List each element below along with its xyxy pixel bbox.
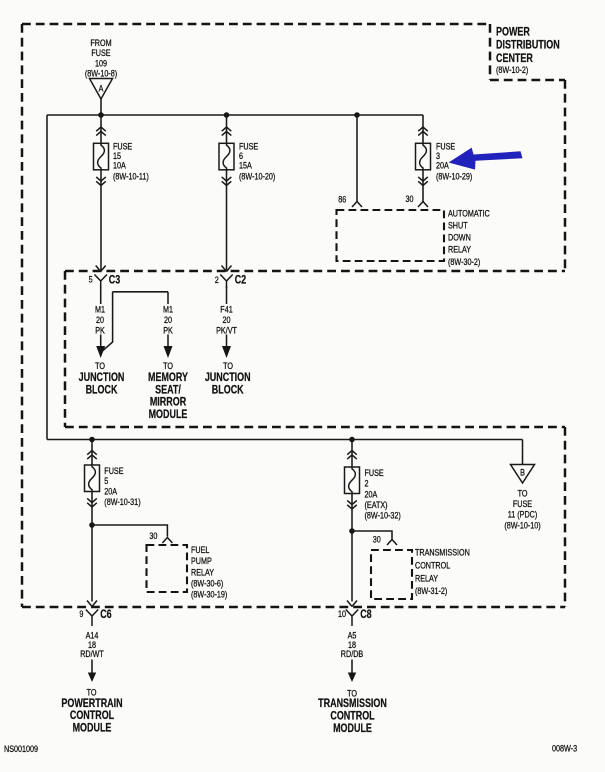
connector C8 fork: [346, 610, 358, 627]
svg-text:POWER: POWER: [496, 26, 530, 38]
svg-text:30: 30: [373, 535, 381, 545]
svg-text:(8W-30-19): (8W-30-19): [191, 590, 228, 600]
svg-text:20A: 20A: [104, 487, 117, 497]
fuse F15 column wire lower: [100, 170, 102, 271]
fuse F5 column wire lower: [91, 492, 93, 602]
connector C3 fork: [95, 275, 107, 289]
svg-text:(8W-10-32): (8W-10-32): [365, 511, 402, 521]
PDC dashed border: bottom: [22, 606, 565, 609]
svg-text:SEAT/: SEAT/: [155, 384, 181, 396]
arrow to powertrain control module: [91, 660, 93, 675]
fuse 15: [94, 143, 109, 170]
label: FUSE 15 10A: [113, 142, 149, 182]
svg-text:F41: F41: [220, 305, 233, 315]
wire: triangle A stem: [100, 99, 102, 115]
wire: memory seat branch lower stub: [167, 335, 169, 348]
svg-text:FUSE: FUSE: [513, 499, 533, 509]
connector C6 fork: [86, 610, 98, 627]
junction dot at fuse 15 tap: [98, 112, 104, 118]
svg-text:M1: M1: [95, 305, 105, 315]
svg-text:FUSE: FUSE: [91, 48, 111, 58]
label: wire A14 18 RD/WT: [80, 631, 104, 660]
svg-text:RELAY: RELAY: [415, 574, 439, 584]
disconnect chevrons above fuse 3: [418, 127, 428, 136]
svg-text:JUNCTION: JUNCTION: [79, 372, 125, 384]
svg-text:11 (PDC): 11 (PDC): [508, 510, 538, 520]
svg-text:BLOCK: BLOCK: [86, 384, 118, 396]
arrow to junction block (right): [222, 346, 231, 358]
svg-text:MODULE: MODULE: [149, 409, 188, 421]
svg-text:SHUT: SHUT: [448, 221, 468, 231]
svg-text:M1: M1: [163, 305, 173, 315]
svg-text:JUNCTION: JUNCTION: [205, 372, 251, 384]
svg-text:(8W-10-11): (8W-10-11): [113, 172, 149, 182]
entry arrow at C3: [96, 266, 106, 272]
svg-text:MODULE: MODULE: [73, 723, 112, 735]
svg-text:RD/DB: RD/DB: [341, 650, 363, 660]
svg-text:6: 6: [239, 151, 243, 161]
svg-text:2: 2: [215, 275, 219, 285]
label: wire M1 20 PK (branch): [163, 305, 173, 336]
svg-text:TO: TO: [163, 361, 173, 371]
arrow to transmission control module: [351, 660, 353, 675]
svg-text:10: 10: [338, 610, 346, 620]
disconnect chevrons above fuse 5: [87, 451, 97, 460]
svg-text:20A: 20A: [365, 490, 378, 500]
svg-text:MIRROR: MIRROR: [150, 397, 187, 409]
svg-text:20: 20: [222, 315, 230, 325]
svg-text:CONTROL: CONTROL: [70, 710, 114, 722]
svg-text:C6: C6: [100, 609, 112, 621]
label: TO POWERTRAIN CONTROL MODULE: [61, 688, 122, 735]
fuel pump relay pin 30 fork: [162, 538, 172, 544]
svg-text:109: 109: [95, 59, 107, 69]
svg-text:(8W-10-20): (8W-10-20): [239, 172, 276, 182]
label: AUTOMATIC SHUT DOWN RELAY: [448, 209, 490, 267]
fuel pump relay box: [147, 545, 188, 592]
svg-text:RELAY: RELAY: [191, 568, 215, 578]
label: TO JUNCTION BLOCK (left): [79, 361, 125, 396]
pin 30 fork (ASD): [418, 202, 428, 208]
label: FUSE 3 20A: [436, 142, 473, 182]
svg-text:C2: C2: [235, 274, 247, 286]
disconnect chevrons above fuse 6: [222, 127, 232, 136]
wire: drop to triangle B: [522, 440, 524, 465]
label: FUSE 2 20A EATX: [365, 468, 402, 520]
svg-text:PK: PK: [163, 326, 173, 336]
svg-text:15A: 15A: [239, 161, 252, 171]
wire: to ASD relay pin 86: [356, 115, 358, 202]
svg-text:(8W-10-31): (8W-10-31): [104, 497, 141, 507]
arrow to memory seat module: [164, 346, 173, 358]
fuse 6: [219, 143, 234, 170]
svg-text:TRANSMISSION: TRANSMISSION: [415, 548, 470, 558]
svg-text:TO: TO: [95, 361, 105, 371]
PDC dashed border: mid horizontal y=271: [65, 270, 565, 273]
svg-text:POWERTRAIN: POWERTRAIN: [61, 698, 122, 710]
disconnect chevrons below fuse 3: [418, 177, 428, 186]
svg-text:C8: C8: [360, 609, 372, 621]
svg-text:AUTOMATIC: AUTOMATIC: [448, 209, 490, 219]
wire: C2 to junction block (lower stub): [226, 335, 228, 348]
svg-text:3: 3: [436, 151, 440, 161]
svg-text:(8W-30-2): (8W-30-2): [448, 257, 481, 267]
svg-text:30: 30: [149, 531, 157, 541]
wire: left vertical feed down inside PDC: [46, 115, 48, 440]
svg-text:008W-3: 008W-3: [552, 744, 578, 754]
fuse F3 column wire lower: [422, 170, 424, 202]
wire: lower horizontal bus: [47, 439, 523, 441]
svg-text:A14: A14: [86, 631, 99, 641]
fuse F15 column wire upper: [100, 115, 102, 144]
entry arrow at C6: [87, 601, 97, 607]
PDC dashed border: right upper: [564, 80, 567, 271]
fuse F5 column wire upper: [91, 440, 93, 466]
junction dot at ASD relay tap: [354, 112, 360, 118]
svg-text:(8W-10-8): (8W-10-8): [85, 69, 118, 79]
automatic shut down relay box: [337, 210, 445, 261]
svg-text:RD/WT: RD/WT: [80, 650, 104, 660]
svg-text:FUSE: FUSE: [365, 468, 385, 478]
node: FROM FUSE 109 label: [85, 38, 118, 79]
label: FUSE 6 15A: [239, 142, 276, 182]
fuse 2: [345, 467, 360, 494]
label: wire A5 18 RD/DB: [341, 631, 363, 660]
disconnect chevrons below fuse 6: [222, 177, 232, 186]
svg-text:TO: TO: [87, 688, 97, 698]
svg-text:MODULE: MODULE: [333, 723, 372, 735]
svg-text:PUMP: PUMP: [191, 557, 212, 567]
wire: C3 to junction block (upper stub): [100, 286, 102, 304]
label: wire M1 20 PK (left): [95, 305, 105, 336]
wire: memory seat branch upper stub: [167, 292, 169, 304]
svg-text:5: 5: [104, 476, 108, 486]
svg-text:(8W-10-2): (8W-10-2): [496, 65, 529, 75]
svg-text:(8W-30-6): (8W-30-6): [191, 579, 224, 589]
svg-text:A5: A5: [348, 631, 357, 641]
svg-text:CONTROL: CONTROL: [330, 710, 374, 722]
PDC dashed border: notch vertical: [489, 24, 492, 80]
disconnect chevrons below fuse 15: [96, 177, 106, 186]
label: FUEL PUMP RELAY: [191, 545, 228, 599]
wire: branch to fuel pump relay: [92, 525, 167, 537]
svg-text:TO: TO: [518, 489, 528, 499]
wire: C3 to junction block (lower stub): [100, 335, 102, 348]
junction dot at fuel pump relay tap: [89, 522, 95, 528]
svg-text:(8W-31-2): (8W-31-2): [415, 586, 448, 596]
connector triangle B: [511, 465, 535, 484]
svg-text:86: 86: [338, 195, 346, 205]
label: TRANSMISSION CONTROL RELAY: [415, 548, 470, 596]
label: TO TRANSMISSION CONTROL MODULE: [318, 689, 387, 736]
svg-text:PK/VT: PK/VT: [216, 326, 237, 336]
pin 86 fork: [352, 202, 362, 208]
svg-text:20: 20: [96, 315, 104, 325]
svg-text:NS001009: NS001009: [4, 744, 39, 754]
label: TO JUNCTION BLOCK (right): [205, 361, 251, 396]
disconnect chevrons below fuse 2: [347, 500, 357, 509]
svg-text:C3: C3: [109, 275, 121, 287]
svg-text:TO: TO: [223, 361, 233, 371]
svg-text:CONTROL: CONTROL: [415, 561, 451, 571]
connector triangle A: [90, 79, 113, 100]
label: TO MEMORY SEAT/MIRROR MODULE: [148, 361, 188, 421]
label: TO FUSE 11 (PDC): [504, 489, 541, 531]
transmission control relay box: [371, 550, 412, 599]
svg-text:(8W-10-10): (8W-10-10): [504, 521, 541, 531]
svg-text:B: B: [520, 468, 525, 478]
disconnect chevrons above fuse 15: [96, 127, 106, 136]
svg-text:DISTRIBUTION: DISTRIBUTION: [496, 40, 560, 52]
fuse F6 column wire lower: [226, 170, 228, 271]
PDC dashed border: cutout left: [64, 271, 67, 427]
fuse F6 column wire upper: [226, 115, 228, 144]
svg-text:30: 30: [405, 195, 413, 205]
connector C2 fork: [220, 275, 232, 289]
junction dot at fuse 6 tap: [224, 112, 230, 118]
svg-text:(8W-10-29): (8W-10-29): [436, 172, 473, 182]
svg-text:20A: 20A: [436, 161, 449, 171]
wire: C2 to junction block (upper stub): [226, 286, 228, 304]
svg-text:FUSE: FUSE: [104, 466, 124, 476]
transmission control relay pin 30 fork: [387, 540, 397, 546]
disconnect chevrons below fuse 5: [87, 498, 97, 507]
junction dot at transmission control relay tap: [349, 528, 355, 534]
svg-text:RELAY: RELAY: [448, 245, 472, 255]
entry arrow at C2: [222, 266, 232, 272]
junction dot at fuse 2 tap: [349, 437, 355, 443]
wire: top bus from fuse 109 feed: [47, 114, 423, 116]
svg-text:5: 5: [89, 275, 93, 285]
svg-text:10A: 10A: [113, 161, 126, 171]
svg-text:PK: PK: [95, 326, 105, 336]
wire: splice branch vertical and diagonal: [103, 292, 113, 351]
svg-text:20: 20: [164, 315, 172, 325]
svg-text:TRANSMISSION: TRANSMISSION: [318, 698, 387, 710]
svg-text:DOWN: DOWN: [448, 233, 471, 243]
PDC dashed border: top: [22, 23, 490, 26]
label: FUSE 5 20A: [104, 466, 141, 507]
PDC dashed border: cutout bottom: [65, 426, 565, 429]
svg-text:MEMORY: MEMORY: [148, 372, 188, 384]
fuse 3: [416, 143, 431, 170]
label: POWER DISTRIBUTION CENTER: [496, 26, 560, 75]
svg-text:FROM: FROM: [90, 38, 111, 48]
arrow to junction block (left): [96, 346, 105, 358]
fuse F2 column wire lower: [351, 494, 353, 602]
svg-text:FUEL: FUEL: [191, 545, 210, 555]
entry arrow at C8: [347, 601, 357, 607]
PDC dashed border: notch horizontal: [490, 79, 565, 82]
fuse 5: [85, 465, 100, 492]
svg-text:BLOCK: BLOCK: [212, 384, 244, 396]
wire: branch to transmission control relay: [352, 531, 392, 539]
svg-text:TO: TO: [347, 689, 357, 699]
svg-text:(EATX): (EATX): [365, 500, 388, 510]
svg-text:2: 2: [365, 479, 369, 489]
svg-text:9: 9: [79, 610, 83, 620]
PDC dashed border: left side: [21, 24, 24, 607]
svg-text:15: 15: [113, 151, 121, 161]
wire: splice branch horizontal: [113, 291, 168, 293]
junction dot at fuse 5 tap: [89, 437, 95, 443]
disconnect chevrons above fuse 2: [347, 451, 357, 460]
svg-text:CENTER: CENTER: [496, 53, 533, 65]
label: wire F41 20 PK/VT: [216, 305, 237, 336]
svg-text:A: A: [99, 84, 104, 94]
blue highlight arrow: [449, 148, 523, 170]
fuse F3 column wire upper: [422, 115, 424, 144]
fuse F2 column wire upper: [351, 440, 353, 468]
PDC dashed border: right lower: [564, 427, 567, 607]
